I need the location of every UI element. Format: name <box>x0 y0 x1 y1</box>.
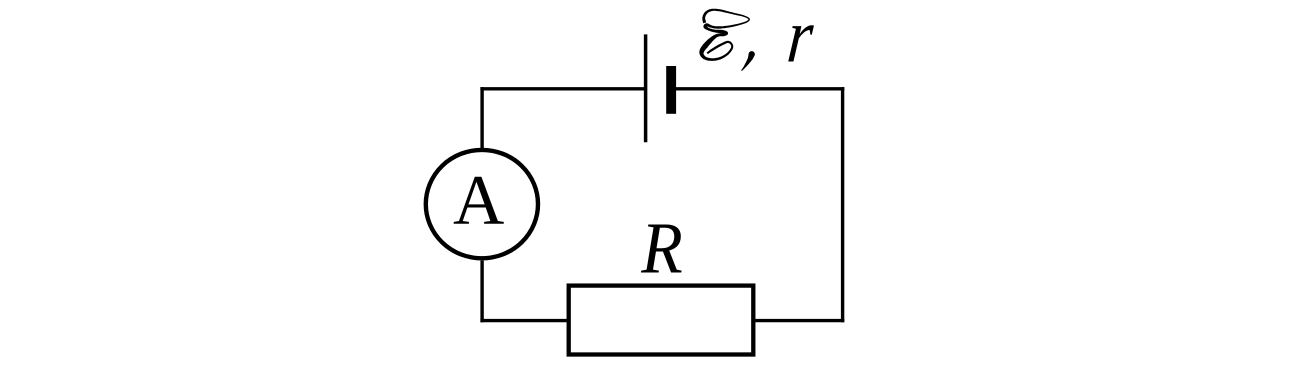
battery cell: positive plate (long thin vertical line) <box>644 34 648 142</box>
wire: left vertical segment from ammeter bottom down to bottom-left corner <box>480 261 483 323</box>
resistor R1: rectangular box body <box>569 286 754 355</box>
battery value label: comma <box>741 51 755 71</box>
battery value label: script capital E (EMF symbol) <box>699 9 750 61</box>
wire: bottom horizontal segment from bottom-right corner to resistor right lead <box>755 319 844 322</box>
ammeter A1: circle body <box>426 150 538 258</box>
wire: bottom horizontal segment from resistor left lead to bottom-left corner <box>480 319 566 322</box>
wire: top horizontal segment from top-left corner to battery positive plate <box>480 87 645 90</box>
svg-text:A: A <box>453 162 504 240</box>
wire: top horizontal segment from battery negative plate to top-right corner <box>676 87 844 90</box>
svg-text:R: R <box>640 208 682 289</box>
wire: left vertical segment from top-left corner down to ammeter top <box>480 87 483 148</box>
battery cell: negative plate (short thick bar) <box>666 66 676 114</box>
wire: right vertical segment from top-right corner down to bottom-right corner <box>841 87 844 322</box>
